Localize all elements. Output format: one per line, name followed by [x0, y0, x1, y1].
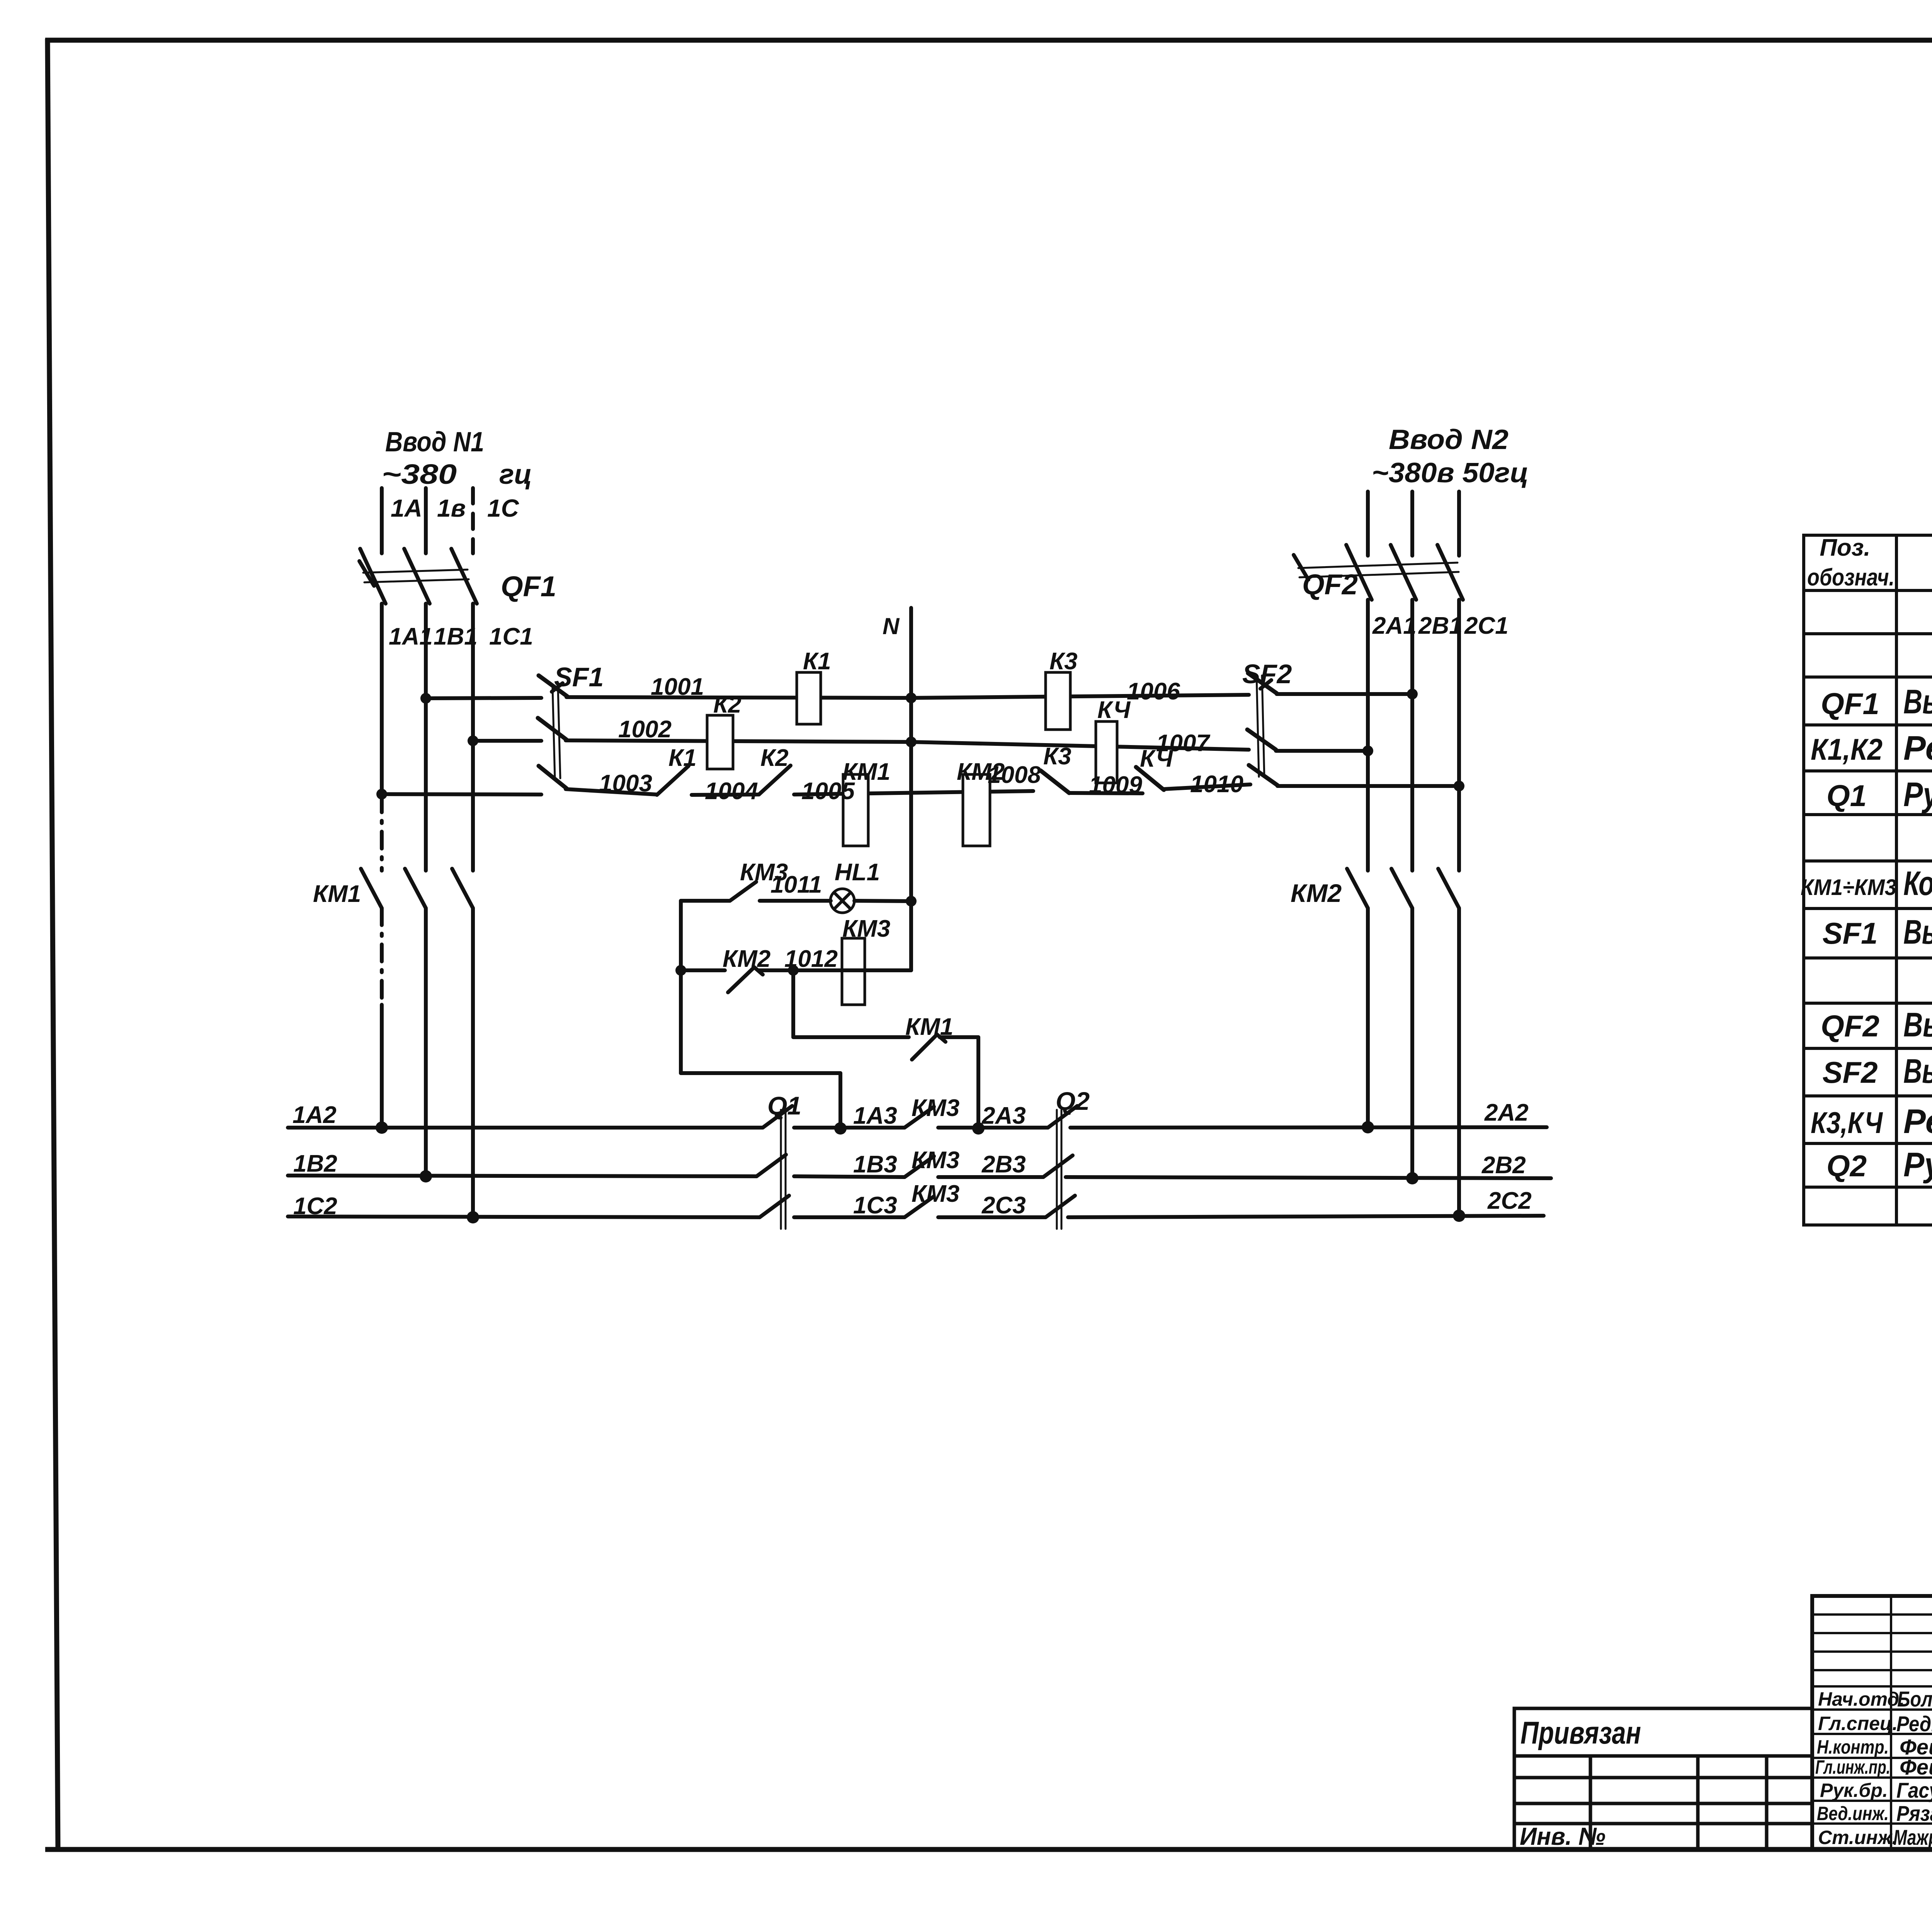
svg-text:QF1: QF1	[1821, 687, 1879, 721]
svg-text:1А: 1А	[391, 494, 422, 522]
svg-text:~380в 50гц: ~380в 50гц	[1372, 458, 1529, 488]
svg-text:Рубильник Р3ЧУ3 пп: Рубильник Р3ЧУ3 пп	[1903, 1145, 1932, 1184]
svg-text:НL1: НL1	[835, 859, 880, 886]
svg-text:КМ3: КМ3	[912, 1181, 959, 1207]
svg-text:Выключатель АП50-3МТУ3 Iр 2,5А: Выключатель АП50-3МТУ3 Iр 2,5А	[1903, 1052, 1932, 1090]
svg-text:К3,КЧ: К3,КЧ	[1811, 1106, 1883, 1140]
svg-text:Поз.: Поз.	[1820, 534, 1870, 561]
svg-text:1001: 1001	[651, 674, 704, 700]
svg-text:2А2: 2А2	[1484, 1099, 1529, 1126]
svg-text:Рук.бр.: Рук.бр.	[1820, 1780, 1888, 1801]
svg-text:Рубильник Р3Ч У3 пп: Рубильник Р3Ч У3 пп	[1903, 775, 1932, 813]
svg-text:Мажренкова: Мажренкова	[1893, 1825, 1932, 1849]
svg-text:SF2: SF2	[1822, 1055, 1878, 1089]
svg-text:Рязанова: Рязанова	[1896, 1801, 1932, 1826]
svg-text:КМ3: КМ3	[842, 915, 890, 942]
svg-text:Вед.инж.: Вед.инж.	[1817, 1803, 1889, 1824]
svg-text:Гл.спец.: Гл.спец.	[1818, 1713, 1898, 1734]
svg-text:КЧ: КЧ	[1140, 745, 1173, 772]
svg-text:1003: 1003	[599, 770, 652, 797]
svg-text:Ввод N2: Ввод N2	[1389, 424, 1509, 455]
svg-text:Выключатель АП50-3МТУ3 Iр =2,: Выключатель АП50-3МТУ3 Iр =2,5А	[1903, 913, 1932, 951]
svg-text:гц: гц	[499, 459, 532, 490]
svg-text:Инв. №: Инв. №	[1520, 1822, 1605, 1850]
svg-text:1В2: 1В2	[293, 1150, 337, 1177]
svg-text:SF1: SF1	[1822, 916, 1878, 950]
svg-text:2В3: 2В3	[981, 1151, 1026, 1178]
svg-text:QF2: QF2	[1821, 1009, 1879, 1043]
svg-text:1А3: 1А3	[853, 1102, 897, 1129]
svg-text:2С2: 2С2	[1487, 1188, 1532, 1214]
svg-text:2С1: 2С1	[1464, 612, 1509, 639]
svg-text:Ст.инж.: Ст.инж.	[1818, 1827, 1897, 1848]
svg-text:Болотов: Болотов	[1897, 1687, 1932, 1711]
svg-text:1004: 1004	[705, 778, 758, 805]
svg-text:К1,К2: К1,К2	[1811, 732, 1883, 766]
svg-text:Выключатель А3734БУ3 Iр 250А п: Выключатель А3734БУ3 Iр 250А пп	[1903, 682, 1932, 721]
svg-text:1в: 1в	[437, 494, 466, 522]
svg-text:SF1: SF1	[554, 662, 604, 692]
svg-text:К3: К3	[1049, 648, 1078, 675]
svg-text:1012: 1012	[784, 946, 838, 972]
svg-text:~380: ~380	[382, 459, 457, 490]
svg-text:КМ1÷КМ3: КМ1÷КМ3	[1801, 875, 1896, 900]
svg-text:2С3: 2С3	[981, 1192, 1026, 1219]
svg-text:Гасумянц: Гасумянц	[1896, 1778, 1932, 1802]
svg-text:КМ1: КМ1	[842, 759, 890, 785]
svg-text:Гл.инж.пр.: Гл.инж.пр.	[1815, 1756, 1890, 1778]
svg-text:К3: К3	[1043, 743, 1071, 770]
svg-text:1С2: 1С2	[293, 1193, 337, 1220]
svg-text:Q1: Q1	[767, 1091, 801, 1120]
svg-text:1С3: 1С3	[853, 1192, 897, 1219]
svg-text:1С1: 1С1	[489, 623, 533, 650]
svg-text:1В1: 1В1	[434, 623, 478, 650]
svg-text:1002: 1002	[618, 716, 672, 743]
svg-text:КМ3: КМ3	[912, 1095, 959, 1121]
svg-text:2В1: 2В1	[1418, 612, 1463, 639]
svg-text:2А3: 2А3	[981, 1102, 1026, 1129]
svg-text:1С: 1С	[487, 494, 519, 522]
svg-text:1009: 1009	[1089, 772, 1142, 798]
svg-text:1006: 1006	[1127, 678, 1180, 705]
svg-text:SF2: SF2	[1242, 659, 1292, 689]
svg-text:К1: К1	[668, 745, 697, 771]
svg-text:1010: 1010	[1190, 771, 1243, 798]
svg-text:QF2: QF2	[1302, 568, 1358, 601]
svg-text:N: N	[883, 613, 900, 639]
svg-text:КМ2: КМ2	[723, 946, 770, 972]
svg-text:1В3: 1В3	[853, 1151, 897, 1178]
svg-text:КМ2: КМ2	[957, 759, 1005, 785]
svg-text:обознач.: обознач.	[1807, 564, 1895, 591]
svg-text:КМ1: КМ1	[905, 1014, 953, 1040]
svg-text:Привязан: Привязан	[1520, 1715, 1641, 1751]
svg-text:Q1: Q1	[1827, 779, 1867, 813]
svg-text:КМ1: КМ1	[313, 881, 361, 907]
svg-text:Н.контр.: Н.контр.	[1817, 1736, 1889, 1758]
svg-text:К2: К2	[713, 691, 742, 718]
svg-text:Q2: Q2	[1827, 1149, 1867, 1183]
svg-text:Реле ПЭ 21-7У3 U~220в: Реле ПЭ 21-7У3 U~220в	[1903, 1102, 1932, 1140]
svg-text:К2: К2	[760, 745, 789, 771]
svg-text:2В2: 2В2	[1481, 1152, 1526, 1179]
svg-text:КМ2: КМ2	[1291, 879, 1342, 907]
svg-text:КМ3: КМ3	[912, 1147, 959, 1174]
svg-text:Ввод N1: Ввод N1	[385, 427, 484, 458]
svg-text:КЧ: КЧ	[1097, 697, 1131, 723]
svg-text:К1: К1	[803, 648, 831, 675]
svg-text:QF1: QF1	[501, 570, 556, 602]
svg-text:2А1: 2А1	[1372, 612, 1417, 639]
svg-text:1А2: 1А2	[293, 1102, 337, 1128]
svg-text:Q2: Q2	[1056, 1087, 1090, 1115]
svg-text:Редникин: Редникин	[1896, 1712, 1932, 1736]
svg-text:1А1: 1А1	[389, 623, 433, 650]
svg-text:Контактор КТ 6033У3 U-380в Вк: Контактор КТ 6033У3 U-380в Вк 2з2р	[1903, 864, 1932, 902]
svg-text:Нач.отд.: Нач.отд.	[1818, 1688, 1905, 1710]
svg-text:Реле ПЭ21-7У3 U~220в: Реле ПЭ21-7У3 U~220в	[1903, 729, 1932, 767]
svg-text:Фешин: Фешин	[1900, 1755, 1932, 1779]
svg-text:1011: 1011	[770, 871, 822, 898]
svg-text:Выключатель А3734БУ3 Iр 250 А: Выключатель А3734БУ3 Iр 250 А пп	[1903, 1005, 1932, 1044]
